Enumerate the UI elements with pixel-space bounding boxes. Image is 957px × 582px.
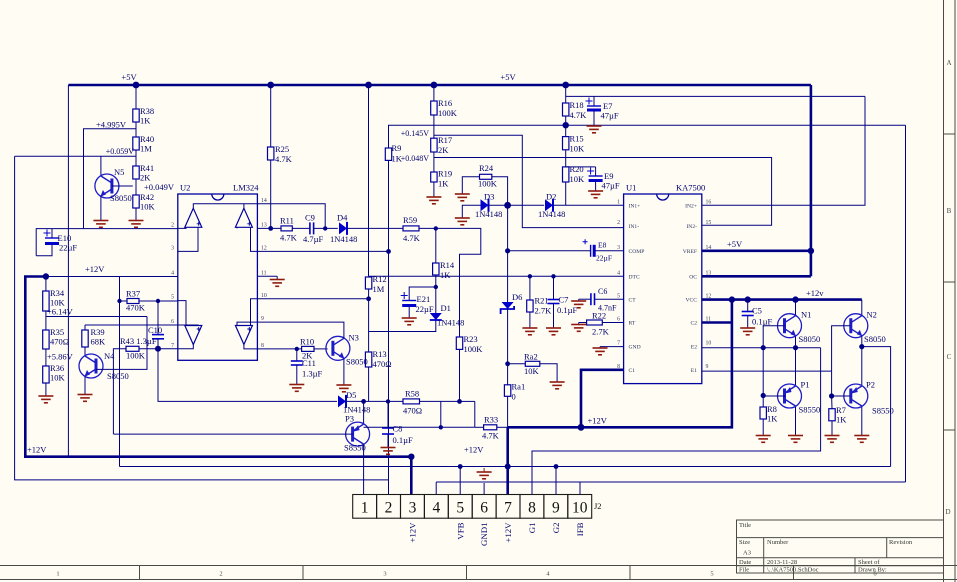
capacitor C5 (742, 306, 773, 327)
node pin10 junction (366, 296, 371, 301)
svg-text:R42: R42 (140, 192, 154, 202)
wire E7 top line (566, 95, 865, 97)
wire Ra2 right (540, 364, 557, 382)
wire Ra1 bottom (507, 396, 509, 427)
label +0.145V (401, 129, 430, 138)
svg-text:R20: R20 (570, 164, 584, 174)
wire Ra2 left (508, 363, 526, 365)
svg-text:+6.14V: +6.14V (47, 307, 74, 317)
wire D6 bottom (507, 309, 509, 385)
svg-text:D: D (945, 508, 950, 516)
node P3 tap (361, 399, 366, 404)
wire E21 top (409, 287, 436, 301)
svg-text:R37: R37 (126, 289, 140, 299)
wire R12 bottom (368, 289, 370, 332)
svg-text:R41: R41 (140, 163, 154, 173)
resistor R43 (120, 336, 157, 361)
svg-text:Ra2: Ra2 (524, 352, 538, 362)
svg-text:A: A (946, 59, 951, 67)
resistor R24 (478, 163, 498, 189)
svg-text:S8050: S8050 (110, 193, 132, 203)
wire C11 gnd (296, 365, 298, 384)
svg-text:IN1+: IN1+ (629, 203, 641, 209)
wire D5-R58 (346, 400, 403, 402)
node pin12 junction (386, 249, 391, 254)
svg-text:A3: A3 (743, 550, 751, 557)
wire pin13 line (257, 227, 281, 229)
capacitor C10 (148, 325, 164, 339)
svg-text:R34: R34 (50, 288, 65, 298)
resistor R25 (268, 144, 293, 164)
wire P1 top (795, 348, 797, 385)
svg-text:68K: 68K (91, 337, 107, 347)
transistor P1 (778, 380, 821, 415)
wire IN2+ net (702, 96, 865, 205)
wire R21 top (529, 276, 531, 300)
ground R7 (825, 436, 840, 443)
svg-text:GND1: GND1 (479, 523, 489, 546)
svg-text:+12V: +12V (464, 445, 484, 455)
wire R20 bottom (565, 182, 567, 205)
ground U1 GND (593, 348, 608, 355)
svg-text:C7: C7 (559, 295, 569, 305)
ground R36 (38, 396, 53, 403)
wire N5 base (112, 185, 133, 187)
svg-text:2K: 2K (438, 145, 449, 155)
svg-text:R58: R58 (405, 389, 419, 399)
wire +5V drop right (810, 85, 813, 276)
wire N5 emitter (100, 196, 102, 220)
svg-text:0.1µF: 0.1µF (393, 435, 414, 445)
node bus junction (458, 464, 463, 469)
svg-text:S8050: S8050 (107, 371, 129, 381)
wire R22 right (602, 322, 623, 324)
svg-text:9: 9 (706, 364, 709, 370)
svg-text:IN2+: IN2+ (685, 203, 697, 209)
svg-text:1.3µF: 1.3µF (302, 369, 323, 379)
wire pin3 drop (410, 457, 413, 495)
op-amp U2A (185, 208, 202, 227)
svg-text:DTC: DTC (629, 274, 640, 280)
node R18-R15 junction (563, 122, 569, 128)
svg-text:E7: E7 (603, 101, 612, 111)
node P2 base junction (829, 393, 834, 398)
svg-text:D2: D2 (546, 192, 556, 202)
ground N3 (336, 385, 351, 392)
svg-text:R38: R38 (140, 106, 154, 116)
label +12V bottom (27, 445, 47, 455)
wire C7 gnd (553, 304, 555, 328)
wire +0.145V line (434, 135, 624, 227)
wire C6 left (579, 299, 591, 300)
ground C6 (571, 301, 586, 308)
svg-text:1: 1 (617, 199, 620, 205)
ground Ra2 (550, 382, 565, 389)
svg-text:IN1-: IN1- (629, 224, 640, 230)
wire R14 bottom (435, 275, 437, 313)
svg-text:R39: R39 (91, 327, 105, 337)
ground C8 (381, 448, 396, 455)
svg-text:R8: R8 (767, 404, 777, 414)
svg-text:6: 6 (171, 319, 174, 325)
ground E7 (587, 126, 602, 133)
svg-text:LM324: LM324 (233, 183, 259, 193)
wire OC (702, 275, 811, 278)
svg-text:IN2-: IN2- (686, 224, 697, 230)
wire N2 emitter (861, 337, 863, 347)
capacitor C8 (382, 424, 413, 446)
wire VFB left (15, 156, 389, 480)
svg-text:VFB: VFB (455, 522, 465, 539)
transistor N1 (778, 310, 821, 345)
svg-text:R17: R17 (438, 135, 452, 145)
svg-text:S8550: S8550 (872, 406, 894, 416)
node VCC junction (729, 296, 735, 302)
svg-text:J2: J2 (594, 501, 602, 511)
wire C10 bottom (157, 339, 159, 349)
wire P3 emitter (363, 444, 365, 495)
connector J2 (353, 495, 602, 519)
wire R58 right (420, 400, 460, 402)
wire pin10conn drop (579, 482, 581, 495)
svg-text:Size: Size (739, 539, 750, 546)
ground P1 (788, 436, 803, 443)
svg-text:1K: 1K (438, 179, 449, 189)
svg-text:R9: R9 (392, 143, 402, 153)
wire N3 collector (257, 322, 344, 338)
wire pin11 stub (257, 276, 277, 279)
transistor N3 (326, 333, 368, 367)
svg-text:S8050: S8050 (864, 334, 886, 344)
ground C5 (740, 328, 755, 335)
wire R59 right (419, 228, 481, 337)
svg-text:15: 15 (706, 220, 712, 226)
svg-text:4.7K: 4.7K (482, 431, 500, 441)
svg-text:E10: E10 (58, 233, 72, 243)
svg-text:1M: 1M (373, 284, 385, 294)
svg-text:2.7K: 2.7K (535, 306, 553, 316)
svg-text:5: 5 (710, 571, 713, 578)
J2 pin 6 label (479, 523, 489, 546)
ground GND1 (477, 468, 492, 495)
node R14 tap (434, 226, 438, 230)
svg-text:R11: R11 (280, 216, 294, 226)
wire P2 emitter (861, 407, 863, 435)
svg-text:N2: N2 (867, 310, 877, 320)
svg-text:47µF: 47µF (602, 181, 620, 191)
svg-text:5: 5 (171, 295, 174, 301)
svg-text:N1: N1 (801, 310, 811, 320)
resistor R38 (133, 106, 154, 126)
resistor R9 (385, 143, 402, 164)
wire R23 bottom (459, 349, 461, 401)
svg-text:KA7500: KA7500 (676, 183, 705, 193)
wire R43 right (139, 348, 158, 350)
op-amp U2C (185, 326, 202, 345)
wire E9 top line (566, 166, 596, 168)
svg-text:10K: 10K (50, 373, 66, 383)
node rail junction (267, 82, 274, 89)
node R37 junction (117, 299, 121, 303)
svg-text:R13: R13 (373, 349, 387, 359)
resistor R12 (365, 274, 386, 294)
svg-text:R24: R24 (479, 163, 494, 173)
resistor R22 (587, 311, 610, 337)
wire +12V thick left (25, 277, 411, 457)
svg-text:100K: 100K (126, 351, 146, 361)
svg-text:D5: D5 (346, 390, 356, 400)
svg-text:R15: R15 (570, 134, 584, 144)
svg-text:C2: C2 (690, 321, 697, 327)
wire R19 gnd (433, 182, 435, 197)
node R21 tap (528, 274, 532, 278)
svg-text:C5: C5 (752, 306, 762, 316)
svg-text:470Ω: 470Ω (403, 406, 422, 416)
node +12V junction (43, 273, 49, 279)
node rail junction (431, 82, 438, 89)
transistor N4 (79, 351, 129, 381)
resistor R19 (431, 169, 452, 189)
capacitor E8 (583, 239, 612, 262)
svg-text:8: 8 (528, 499, 536, 516)
diode D1 (430, 303, 465, 328)
svg-text:R12: R12 (373, 274, 387, 284)
svg-text:C10: C10 (148, 325, 162, 335)
node R33 tap (439, 425, 443, 429)
svg-text:470K: 470K (126, 303, 146, 313)
resistor R8 (760, 404, 778, 424)
resistor R15 (563, 134, 586, 154)
label +12V (85, 264, 105, 274)
svg-text:+5V: +5V (727, 239, 743, 249)
wire GND stub (600, 346, 624, 349)
wire E10 top (51, 229, 53, 238)
svg-text:Ra1: Ra1 (512, 382, 526, 392)
wire C2 stub (702, 321, 732, 324)
wire N2 collector (861, 300, 863, 315)
svg-text:Revision: Revision (889, 539, 913, 546)
svg-text:+12V: +12V (503, 522, 513, 543)
IC U1 body (624, 183, 706, 384)
wire R33 stub (440, 401, 442, 427)
capacitor C7 (548, 295, 578, 316)
wire D2-pin1 (553, 204, 624, 206)
ground C7 (546, 328, 561, 335)
svg-text:7: 7 (171, 343, 174, 349)
wire pin5 drop (459, 467, 461, 495)
svg-text:+12V: +12V (85, 264, 105, 274)
wire P3 collector (363, 401, 365, 424)
resistor R7 (829, 405, 847, 425)
wire R21 gnd (529, 312, 531, 328)
svg-text:+0.048V: +0.048V (401, 154, 430, 163)
svg-text:E2: E2 (691, 345, 697, 351)
svg-text:1N4148: 1N4148 (538, 209, 565, 219)
svg-text:IFB: IFB (575, 522, 585, 536)
J2 pin 9 label (551, 523, 561, 534)
svg-text:C11: C11 (302, 358, 316, 368)
svg-text:VREF: VREF (683, 249, 697, 255)
resistor R42 (133, 192, 156, 212)
resistor R23 (456, 334, 483, 354)
wire IFB line (436, 481, 905, 483)
svg-text:4: 4 (617, 270, 620, 276)
svg-text:2.7K: 2.7K (592, 327, 610, 337)
node C7 tap (551, 274, 555, 278)
svg-text:4: 4 (432, 499, 440, 516)
svg-text:R35: R35 (50, 327, 64, 337)
wire U2 pin12 line (257, 250, 388, 252)
wire node-D2 (508, 204, 544, 206)
capacitor E7 (586, 98, 619, 121)
wire R25 bottom (270, 160, 272, 228)
diode D2 (538, 192, 565, 219)
capacitor C6 (591, 287, 617, 313)
svg-text:S8050: S8050 (346, 357, 368, 367)
+5V label (121, 72, 137, 82)
wire N4 emitter (84, 377, 86, 395)
wire R38-R40 (135, 122, 137, 137)
wire R43 left drop (113, 349, 126, 434)
svg-text:16: 16 (706, 199, 712, 205)
wire C7 top (553, 276, 555, 299)
ground C11 (289, 385, 304, 392)
wire pin2conn (388, 480, 390, 495)
svg-text:4.7K: 4.7K (280, 233, 298, 243)
node Ra2 junction (505, 361, 510, 366)
node C8 tap (386, 399, 390, 403)
svg-text:R10: R10 (300, 337, 314, 347)
node VREF junction (808, 248, 814, 254)
resistor R14 (433, 260, 455, 280)
wire N2 base drop (831, 371, 833, 396)
svg-text:6: 6 (617, 317, 620, 323)
J2 pin 7 label (503, 522, 513, 543)
svg-text:2: 2 (219, 571, 222, 578)
svg-text:1N4148: 1N4148 (475, 209, 502, 219)
node rail junction (562, 82, 569, 89)
ground R22 (571, 325, 586, 332)
wire R33 link (474, 401, 476, 427)
svg-text:R19: R19 (438, 169, 452, 179)
svg-text:4.7K: 4.7K (275, 154, 293, 164)
U1 pin labels (617, 199, 711, 373)
wire N1 base drop (762, 348, 764, 396)
svg-text:CT: CT (629, 298, 637, 304)
svg-text:100K: 100K (478, 179, 498, 189)
node N2 emitter junction (859, 344, 864, 349)
wire E7 leads (593, 96, 595, 125)
svg-text:7: 7 (617, 341, 620, 347)
label +12v (806, 288, 824, 298)
wire R58 line ext (460, 400, 475, 402)
wire C9-D4 (314, 227, 338, 229)
label +5V VREF (727, 239, 743, 249)
+5V rail wire (68, 84, 811, 87)
svg-text:GND: GND (629, 345, 641, 351)
wire R14 top (435, 228, 437, 263)
resistor R59 (403, 215, 421, 243)
ground N4 (78, 395, 93, 402)
svg-text:22µF: 22µF (59, 243, 77, 253)
wire C8 top (387, 401, 389, 428)
svg-text:Sheet of: Sheet of (858, 559, 880, 566)
J2 pin 10 label (575, 522, 585, 536)
wire R8 leads (762, 396, 764, 436)
wire +12V drop right (508, 300, 732, 428)
wire R9 top corner (389, 125, 906, 148)
label +6.14V (47, 307, 74, 317)
wire R40-R41 (135, 150, 137, 166)
label +0.048V (401, 154, 430, 163)
svg-text:R40: R40 (140, 134, 154, 144)
svg-text:1K: 1K (836, 415, 847, 425)
node E2 junction (793, 345, 798, 350)
label +0.059V (106, 147, 135, 156)
svg-text:8: 8 (261, 343, 264, 349)
title block (737, 520, 944, 574)
wire P1 emitter (795, 407, 797, 435)
svg-text:File: File (739, 567, 749, 574)
wire R39 top (84, 325, 86, 330)
wire E9 leads (595, 167, 597, 191)
wire N5 collector (100, 156, 102, 176)
capacitor E10 (44, 230, 78, 253)
wire pin6 line (85, 324, 178, 326)
svg-text:5: 5 (456, 499, 464, 516)
svg-text:E8: E8 (598, 241, 607, 250)
wire E1 line (702, 370, 832, 372)
node E21 tap (434, 285, 438, 289)
svg-text:OC: OC (689, 274, 697, 280)
svg-text:D6: D6 (512, 292, 522, 302)
wire R12 top (368, 275, 370, 278)
wire +12V to U2 pin4 (46, 276, 178, 278)
wire N2-P2 (861, 347, 863, 385)
wire R34-R35 (45, 311, 47, 330)
svg-text:R59: R59 (403, 215, 417, 225)
resistor R34 (43, 288, 66, 311)
svg-text:10: 10 (706, 341, 712, 347)
svg-text:P3: P3 (345, 414, 354, 424)
svg-text:+12V: +12V (588, 416, 608, 426)
wire R16-R17 (433, 115, 435, 138)
wire D3-node (489, 204, 508, 206)
node rail junction (365, 82, 372, 89)
label +4.995V (96, 120, 127, 130)
node D3-D2 junction (504, 202, 511, 209)
node C10 tap (156, 299, 160, 303)
ground U2 pin11 (270, 280, 285, 287)
transistor N5 (95, 167, 132, 203)
svg-text:G2: G2 (551, 523, 561, 534)
svg-text:1N4148: 1N4148 (330, 234, 357, 244)
wire C10 top (157, 301, 159, 335)
wire pin5 line (139, 300, 178, 302)
wire R12-R13 (368, 332, 370, 353)
resistor R37 (126, 289, 146, 313)
svg-text:N5: N5 (114, 167, 124, 177)
svg-text:R21: R21 (535, 296, 549, 306)
node pin3 junction (408, 454, 414, 460)
node +12V out junction (578, 424, 585, 431)
svg-text:1K: 1K (767, 414, 778, 424)
wire VCC rail (702, 298, 862, 301)
wire R9 bottom (388, 160, 390, 480)
ground R8 (756, 436, 771, 443)
svg-text:U2: U2 (180, 183, 190, 193)
+5V label (500, 72, 516, 82)
